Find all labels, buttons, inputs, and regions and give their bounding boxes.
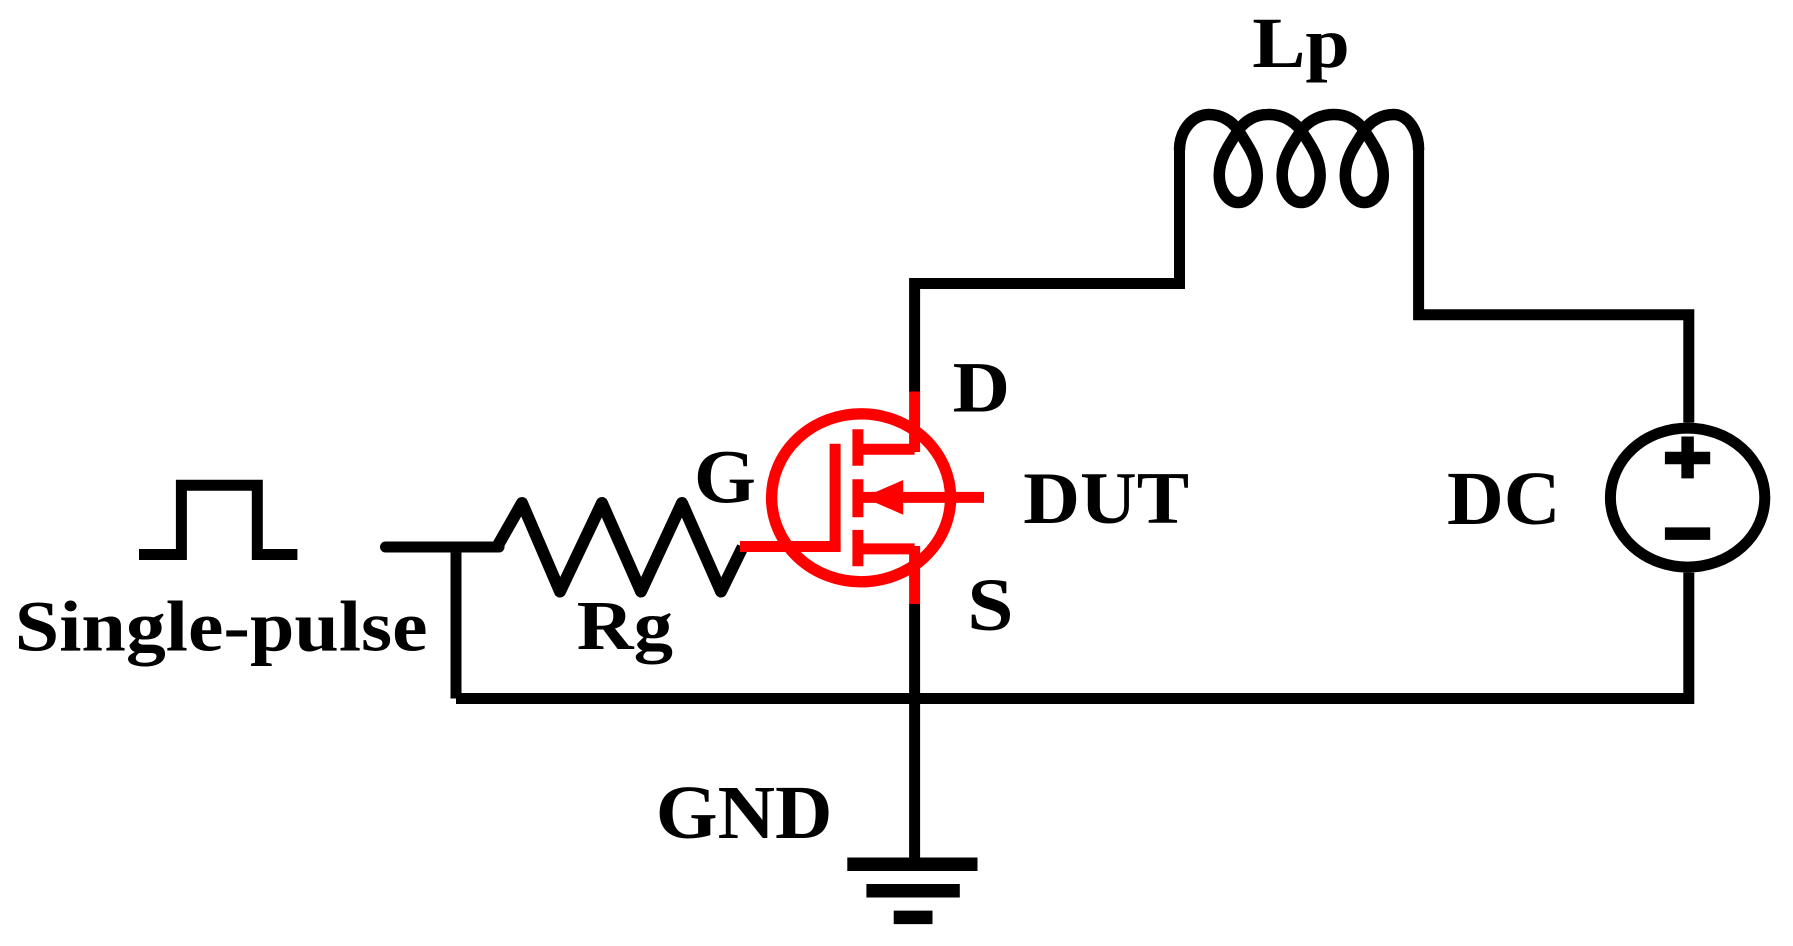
svg-text:S: S [967,563,1013,647]
ground symbol [847,864,977,917]
drain internal connection [858,444,915,455]
svg-text:GND: GND [656,769,833,854]
svg-text:Rg: Rg [577,588,673,665]
svg-text:D: D [953,348,1010,428]
wire DC source bottom, ground bus, up to junction [456,573,1689,699]
source internal connection [858,543,915,554]
gate bar [830,444,841,551]
ground bar bottom [894,911,933,925]
wire source lead down to ground (black part) [909,604,920,864]
svg-text:DC: DC [1447,456,1561,541]
pulse source V1 (single-pulse waveform symbol) [139,485,297,554]
channel segment bottom [852,530,863,566]
wire inductor down and over to DC source [1419,150,1689,423]
wire junction vertical drop to ground bus [451,547,462,699]
channel segment top [852,429,863,465]
svg-text:Lp: Lp [1252,4,1350,84]
source lead (red part) [909,546,920,604]
svg-text:DUT: DUT [1023,457,1189,539]
body arrowhead [863,480,903,515]
minus sign [1665,527,1710,540]
gate lead wire (red) [740,541,841,552]
mosfet body circle [772,414,951,582]
body lead with arrow [862,492,984,503]
transistor Q1 DUT (red MOSFET) [740,391,984,604]
wire pulse output to resistor [386,542,500,553]
channel segment middle [852,479,863,517]
svg-text:Single-pulse: Single-pulse [15,587,428,667]
wire drain up and over to inductor [915,150,1180,392]
drain lead (red part) [909,391,920,452]
resistor Rg [497,503,743,592]
ground bar middle [866,884,959,898]
voltage source DC [1610,428,1764,567]
ground bar top [847,858,977,872]
plus sign [1665,437,1710,479]
svg-text:G: G [694,435,756,519]
inductor Lp [1180,114,1419,202]
